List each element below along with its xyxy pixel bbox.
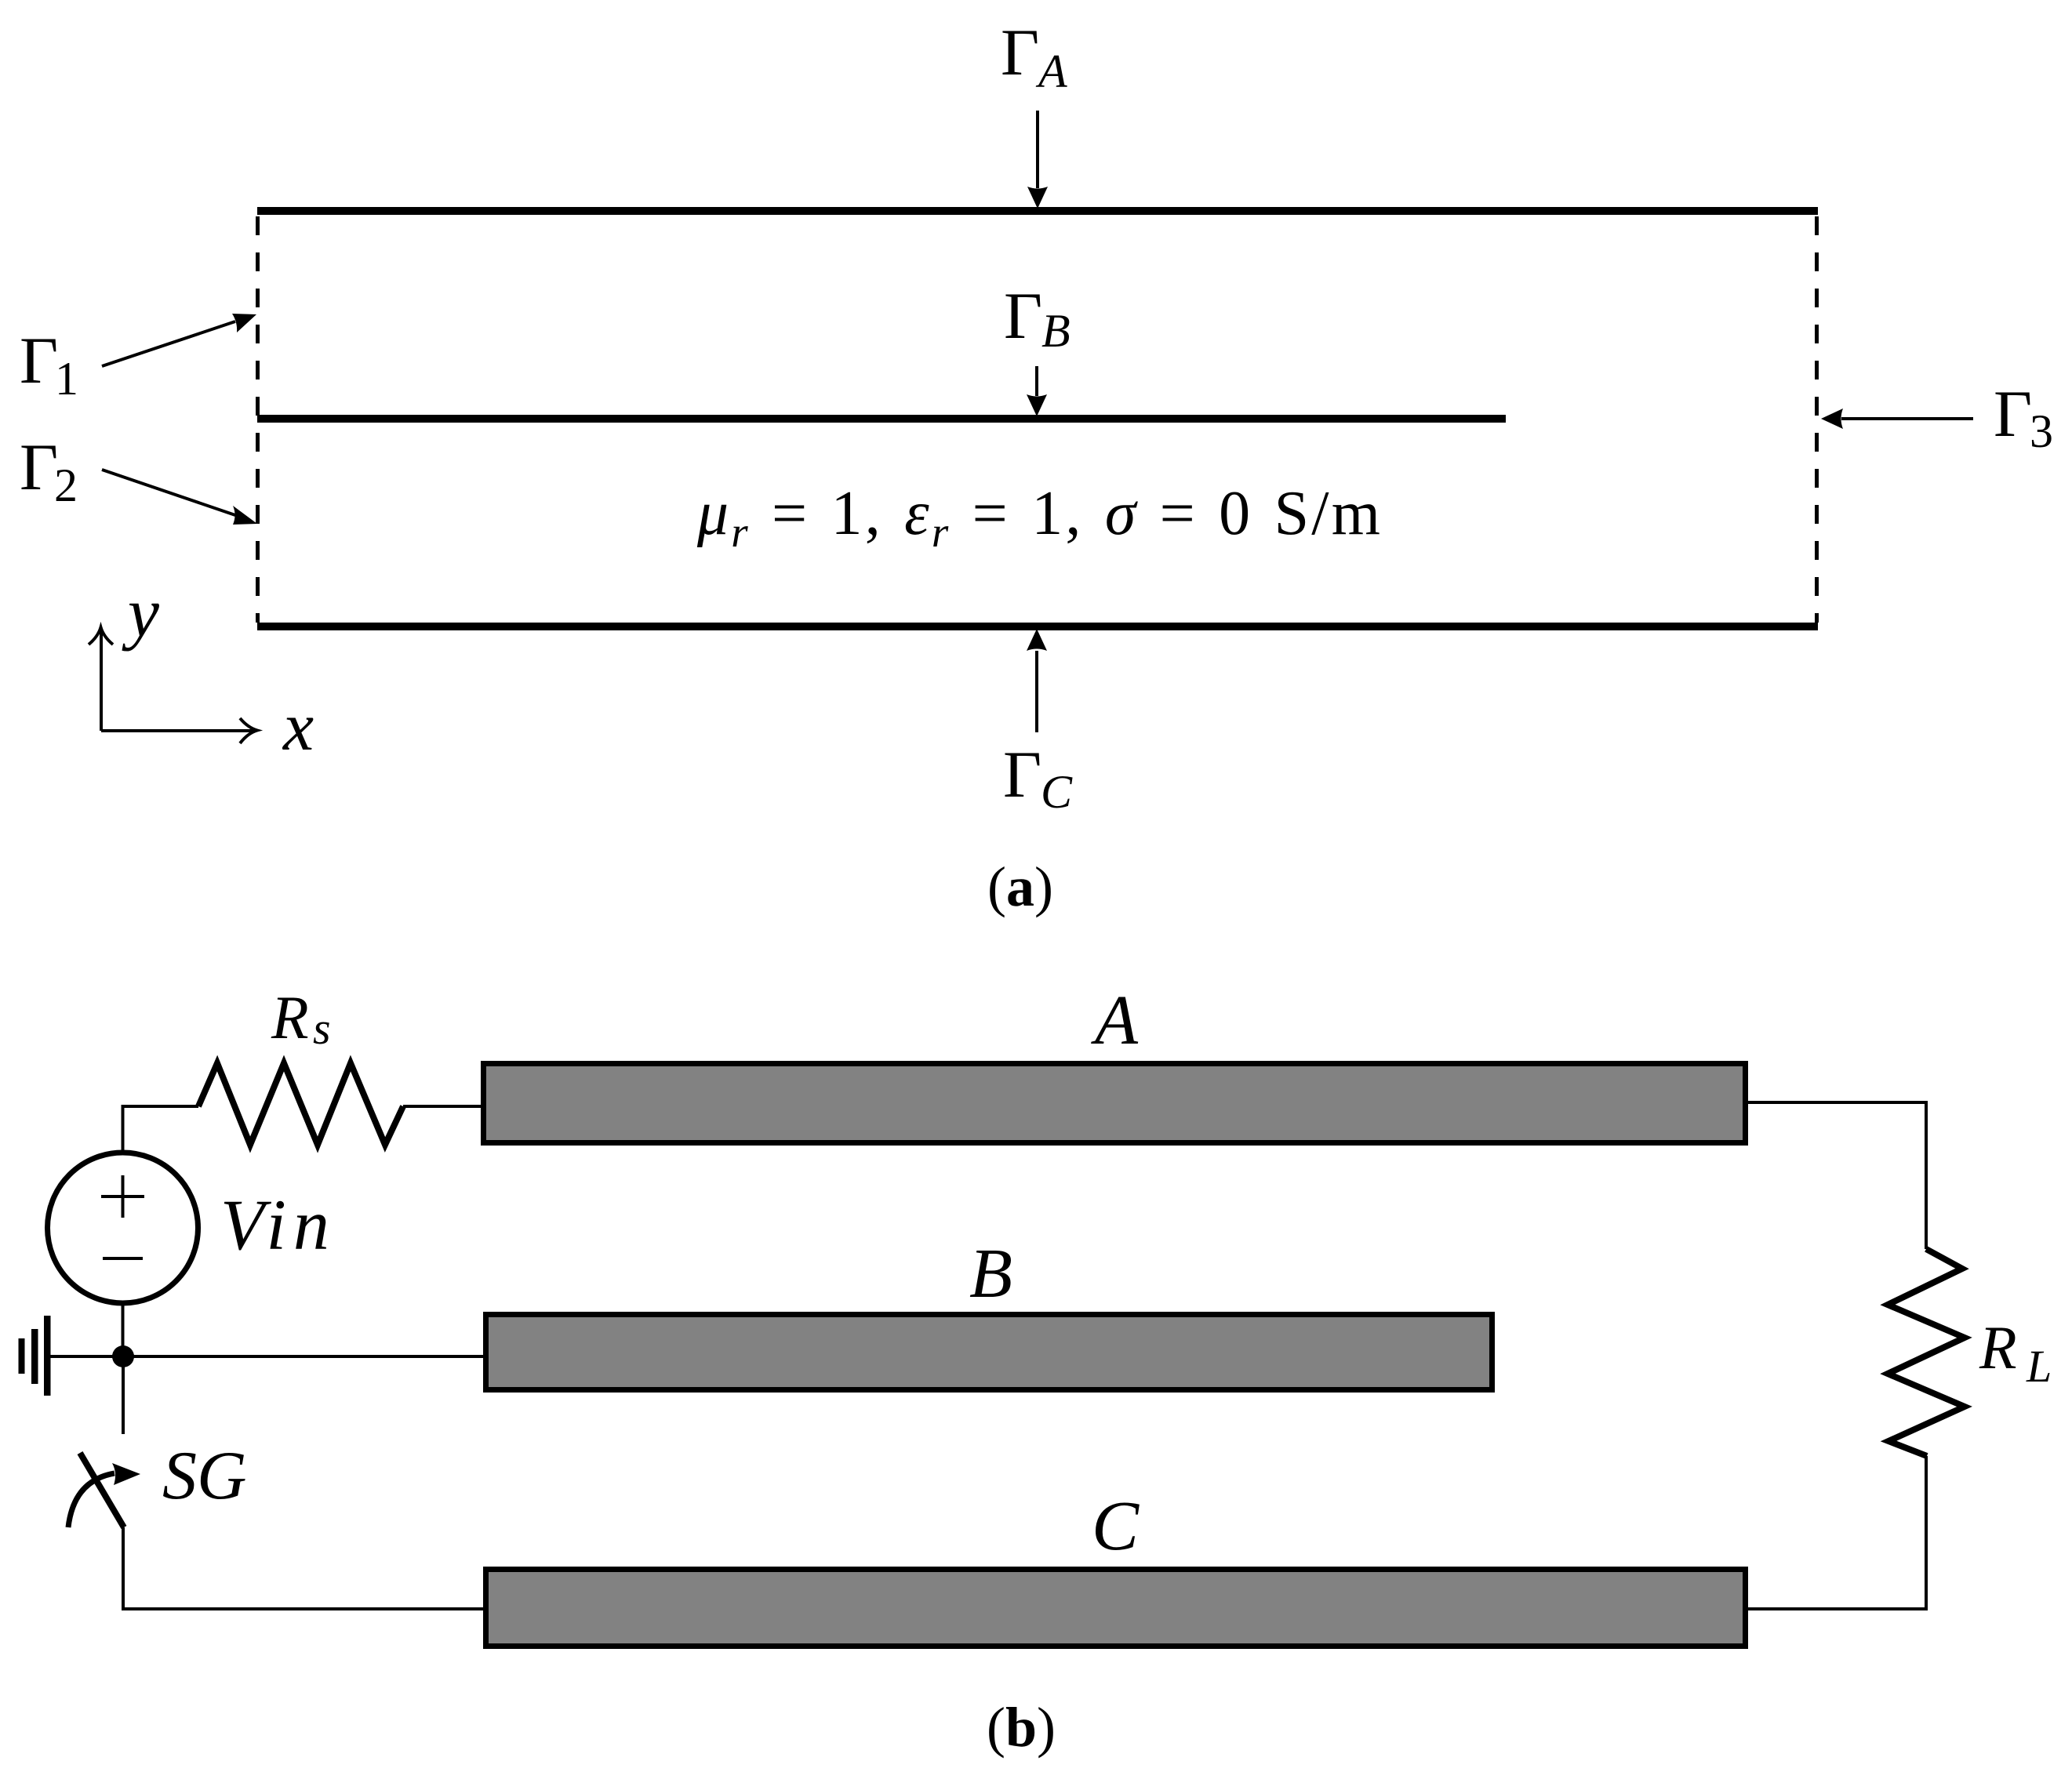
- svg-text:2: 2: [54, 459, 78, 511]
- svg-text:Γ: Γ: [1004, 279, 1042, 353]
- svg-text:R: R: [271, 983, 309, 1051]
- svg-text:A: A: [1091, 982, 1139, 1059]
- svg-text:Γ: Γ: [20, 324, 58, 398]
- svg-text:A: A: [1035, 45, 1067, 97]
- svg-text:B: B: [1041, 305, 1071, 357]
- svg-text:Γ: Γ: [1001, 16, 1039, 89]
- svg-text:μr = 1, εr = 1, σ = 0 S/m: μr = 1, εr = 1, σ = 0 S/m: [696, 479, 1383, 556]
- svg-text:(b): (b): [987, 1696, 1056, 1759]
- svg-text:R: R: [1979, 1313, 2017, 1382]
- svg-text:(a): (a): [987, 855, 1053, 918]
- svg-text:Γ: Γ: [1003, 738, 1041, 812]
- svg-text:3: 3: [2030, 405, 2053, 457]
- svg-text:y: y: [122, 574, 159, 652]
- svg-text:Vin: Vin: [220, 1185, 336, 1265]
- svg-text:C: C: [1041, 766, 1073, 818]
- svg-text:SG: SG: [162, 1438, 247, 1514]
- svg-text:L: L: [2026, 1341, 2052, 1392]
- svg-text:x: x: [282, 689, 314, 765]
- svg-text:Γ: Γ: [1994, 377, 2032, 451]
- svg-text:s: s: [313, 1003, 331, 1054]
- svg-text:1: 1: [55, 353, 78, 405]
- svg-text:B: B: [969, 1235, 1012, 1313]
- svg-text:C: C: [1092, 1487, 1140, 1565]
- svg-text:Γ: Γ: [20, 430, 58, 504]
